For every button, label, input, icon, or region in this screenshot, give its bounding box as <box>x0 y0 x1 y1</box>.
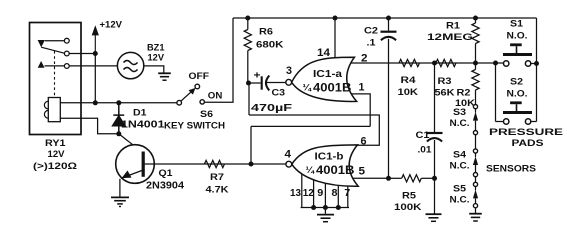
sensor S3 bottom terminal <box>473 131 477 135</box>
svg-text:S5: S5 <box>453 184 467 195</box>
wire R6 to C3 junction <box>247 51 249 84</box>
buzzer BZ1 circle <box>117 52 143 78</box>
svg-text:5: 5 <box>359 166 366 178</box>
wire C3 to IC1-a output bubble <box>266 82 286 84</box>
IC1-b ground bus <box>301 207 349 209</box>
svg-text:R2: R2 <box>457 88 471 99</box>
svg-text:N.C.: N.C. <box>450 161 470 172</box>
wire C2 to pin5 node <box>388 39 390 179</box>
svg-text:C3: C3 <box>272 88 286 99</box>
wire pin1 feedback rail <box>249 114 370 116</box>
wire triangle to NC contact <box>45 40 65 42</box>
svg-text:6: 6 <box>361 136 367 148</box>
wire rail to R6 <box>247 18 249 30</box>
switch S1 stem <box>516 46 518 53</box>
svg-text:9: 9 <box>317 188 324 199</box>
wire IC1-b pin5 run <box>350 177 389 179</box>
transistor Q1 circle <box>116 145 155 184</box>
wire pin1 to riser <box>350 94 370 127</box>
svg-text:S3: S3 <box>453 107 466 118</box>
resistor R5 <box>402 175 422 182</box>
diode D1 <box>113 103 125 134</box>
capacitor C3 flat plate <box>261 76 263 89</box>
svg-text:RY1: RY1 <box>45 138 66 149</box>
junction trigger / S1 left <box>493 61 498 66</box>
svg-text:IC1-a: IC1-a <box>313 69 343 80</box>
junction R6/C3/pin1 <box>246 81 251 86</box>
svg-text:Q1: Q1 <box>159 168 174 179</box>
relay contact fixed triangle (down) <box>38 40 45 47</box>
svg-text:4001B: 4001B <box>316 163 355 177</box>
junction +12V / relay common <box>93 51 98 56</box>
+12V top rail <box>233 17 537 19</box>
svg-text:KEY SWITCH: KEY SWITCH <box>164 121 225 132</box>
switch S6 OFF contact <box>195 84 200 89</box>
wire S5 <box>475 198 477 203</box>
junction D1 top <box>116 100 121 105</box>
op-amp U1 IC1-a NOR gate body <box>292 57 357 101</box>
relay contact triangle (up) <box>38 61 45 68</box>
svg-text:4: 4 <box>285 149 292 161</box>
switch S6 pole contact <box>177 100 182 105</box>
wire S2 left lead <box>496 121 504 123</box>
junction right vertical / S1 <box>534 61 539 66</box>
wire rail to R1 <box>475 18 477 23</box>
svg-text:.01: .01 <box>418 145 433 156</box>
switch S2 left contact <box>504 119 509 124</box>
ground below IC1-b <box>317 214 334 216</box>
wire R5 leads <box>389 177 402 179</box>
ground below Q1 <box>111 196 129 198</box>
svg-text:D1: D1 <box>133 108 147 119</box>
junction bus pin12 <box>311 205 316 210</box>
wire pin4 feedback rail <box>251 125 370 127</box>
wire rail to C2 <box>388 18 390 31</box>
junction +12V / main wire <box>93 100 98 105</box>
capacitor C2 curved plate <box>381 37 396 40</box>
svg-text:56K: 56K <box>435 88 455 99</box>
sensor S5 arrow <box>473 190 478 199</box>
svg-text:8: 8 <box>332 188 339 199</box>
transistor Q1 base bar <box>142 152 145 177</box>
wire C1 to R5 node <box>434 140 436 178</box>
wire S2 right lead <box>531 121 537 123</box>
wire tee to pin6 <box>356 115 379 145</box>
wire bus to ground <box>324 208 326 214</box>
svg-text:R5: R5 <box>402 191 417 202</box>
switch S6 lever arrow <box>189 88 196 95</box>
wire relay coil bottom to D1 anode <box>60 118 119 134</box>
relay RY1 enclosure box <box>30 23 82 135</box>
svg-text:+12V: +12V <box>100 20 123 31</box>
wire S1 left lead <box>496 62 504 64</box>
junction rail / pin14 <box>333 16 338 21</box>
switch S2 stem <box>516 104 518 111</box>
svg-text:12V: 12V <box>148 53 165 64</box>
ground below C1 <box>426 213 442 215</box>
svg-text:OFF: OFF <box>189 71 210 82</box>
switch S1 cap <box>510 43 522 46</box>
sensor S5 top terminal <box>473 182 477 186</box>
svg-text:100K: 100K <box>394 202 422 213</box>
svg-text:IC1-b: IC1-b <box>315 152 344 163</box>
svg-text:N.O.: N.O. <box>507 89 528 100</box>
wire relay coil top to main node <box>60 102 95 104</box>
svg-text:R6: R6 <box>259 27 273 38</box>
svg-text:N.C.: N.C. <box>450 118 470 129</box>
switch S6 lever <box>181 90 193 101</box>
junction R7 / rail2 riser <box>249 162 254 167</box>
svg-text:680K: 680K <box>256 40 284 51</box>
IC1-a pin14 stub <box>334 18 336 62</box>
resistor R4 <box>399 59 420 66</box>
wire triangle to NO contact <box>45 65 65 67</box>
wire main node to key switch <box>95 102 177 104</box>
sensor S3 top terminal <box>473 105 477 109</box>
wire S3-S4 <box>475 135 477 149</box>
svg-text:2: 2 <box>361 53 368 65</box>
wire S4 <box>475 165 477 173</box>
svg-text:SENSORS: SENSORS <box>486 164 536 175</box>
wire junction to C1 <box>434 63 436 132</box>
junction D1 bottom <box>116 131 121 136</box>
svg-text:1: 1 <box>359 82 365 94</box>
junction bus pin8 <box>336 205 341 210</box>
relay armature dashed link <box>54 51 56 97</box>
IC1-b bottom pin stubs <box>301 172 303 208</box>
sensor S3 arrow <box>473 112 478 121</box>
wire S5 to ground <box>475 208 477 213</box>
sensor S5 bottom terminal <box>473 204 477 208</box>
+12V supply arrow <box>93 27 99 54</box>
ground below buzzer <box>158 72 171 74</box>
svg-text:S1: S1 <box>510 19 524 30</box>
svg-text:C1: C1 <box>416 130 431 141</box>
svg-text:N.O.: N.O. <box>507 31 528 42</box>
wire left pads vertical <box>495 63 497 122</box>
relay armature arm <box>41 47 64 53</box>
sensor S4 bottom terminal <box>473 173 477 177</box>
svg-text:10K: 10K <box>398 87 419 98</box>
wire C1 node to ground <box>434 178 436 213</box>
wire S3 <box>475 121 477 131</box>
switch S1 left contact <box>504 61 509 66</box>
svg-text:12: 12 <box>303 188 315 199</box>
wire relay NO contact to buzzer <box>69 65 117 67</box>
svg-text:12V: 12V <box>48 149 66 160</box>
svg-text:R7: R7 <box>210 172 224 183</box>
svg-text:14: 14 <box>317 47 331 59</box>
svg-text:2N3904: 2N3904 <box>146 181 185 192</box>
switch S2 bar <box>503 111 532 114</box>
switch S2 cap <box>510 101 522 104</box>
svg-text:4001B: 4001B <box>313 81 352 95</box>
relay coil winding bumps <box>44 101 48 118</box>
wire R1 to trigger node <box>475 44 477 64</box>
capacitor C3 curved plate <box>266 76 269 91</box>
wire trigger to R2 <box>475 63 477 70</box>
svg-text:R1: R1 <box>446 21 461 32</box>
svg-text:R4: R4 <box>401 75 417 86</box>
junction rail / R6 <box>245 16 250 21</box>
wire S6 ON to +12V rail riser <box>204 18 233 102</box>
wire S4-S5 <box>475 177 477 183</box>
riser rail2 to R7 node <box>250 126 252 164</box>
svg-text:S2: S2 <box>510 77 523 88</box>
svg-text:13: 13 <box>290 188 302 199</box>
svg-text:12MEG: 12MEG <box>427 32 473 43</box>
svg-text:1N4001: 1N4001 <box>121 120 165 131</box>
capacitor C1 curved plate <box>427 138 442 141</box>
svg-text:N.C.: N.C. <box>450 195 470 206</box>
wire S1 right lead <box>531 63 537 65</box>
switch S6 ON contact <box>200 100 204 104</box>
wire relay common to +12V node <box>69 53 95 55</box>
svg-text:4.7K: 4.7K <box>206 185 229 196</box>
relay NO contact circle <box>64 64 69 69</box>
op-amp U2 IC1-b NOR gate body <box>292 145 358 186</box>
transistor Q1 emitter arrow <box>122 171 132 179</box>
wire buzzer to ground <box>144 66 164 73</box>
svg-text:S6: S6 <box>200 109 213 120</box>
switch S1 bar <box>503 53 532 56</box>
svg-text:PADS: PADS <box>512 138 544 149</box>
junction R4/R3/C1 <box>432 61 437 66</box>
svg-text:470µF: 470µF <box>251 103 292 114</box>
svg-text:S4: S4 <box>453 150 467 161</box>
junction pin5/C2/R5 <box>386 176 391 181</box>
wire right pads vertical <box>536 18 538 122</box>
ground below sensors <box>469 213 482 215</box>
junction R1/R2/trigger <box>473 61 478 66</box>
wire D1 anode to Q1 collector <box>119 134 143 153</box>
sensor S4 arrow <box>473 156 478 165</box>
capacitor C1 flat plate <box>427 132 443 134</box>
buzzer BZ1 sine symbol lower <box>124 68 138 72</box>
switch S1 right contact <box>525 61 530 66</box>
wire IC1-a pin2 run <box>350 62 496 64</box>
svg-text:R3: R3 <box>438 76 452 87</box>
wire R2 to S3 <box>475 90 477 104</box>
transistor Q1 emitter <box>122 170 143 178</box>
svg-text:+: + <box>254 71 261 82</box>
svg-text:(>)120Ω: (>)120Ω <box>33 161 77 171</box>
relay NC contact circle <box>64 38 69 43</box>
junction rail / R1 <box>473 16 478 21</box>
svg-text:7: 7 <box>344 188 351 199</box>
resistor R7 <box>204 160 224 167</box>
wire +12V vertical <box>94 54 96 103</box>
junction rail / C2 <box>386 16 391 21</box>
junction bus pin9 <box>323 205 328 210</box>
resistor R2 <box>472 70 479 91</box>
svg-text:C2: C2 <box>364 26 378 37</box>
resistor R3 <box>436 59 456 66</box>
switch S2 right contact <box>525 119 530 124</box>
sensor S4 top terminal <box>473 149 477 153</box>
svg-text:.1: .1 <box>367 38 377 49</box>
buzzer BZ1 sine symbol upper <box>124 61 138 65</box>
wire junction to C3 <box>249 82 261 84</box>
riser to R6/C3 junction <box>248 83 250 115</box>
relay common contact circle <box>64 51 69 56</box>
svg-text:PRESSURE: PRESSURE <box>489 127 563 138</box>
resistor R6 <box>244 30 251 51</box>
IC1-b output bubble pin4 <box>286 161 292 167</box>
junction R5/C1/ground <box>432 176 437 181</box>
relay coil body <box>48 98 60 122</box>
IC1-a output bubble pin3 <box>286 79 292 85</box>
svg-text:3: 3 <box>286 65 292 77</box>
capacitor C2 flat plate <box>381 31 397 33</box>
wire R7 node to IC1-b pin4 bubble <box>145 163 286 165</box>
wire Q1 emitter to ground <box>119 179 121 197</box>
svg-text:ON: ON <box>208 91 223 102</box>
resistor R1 <box>472 23 479 44</box>
